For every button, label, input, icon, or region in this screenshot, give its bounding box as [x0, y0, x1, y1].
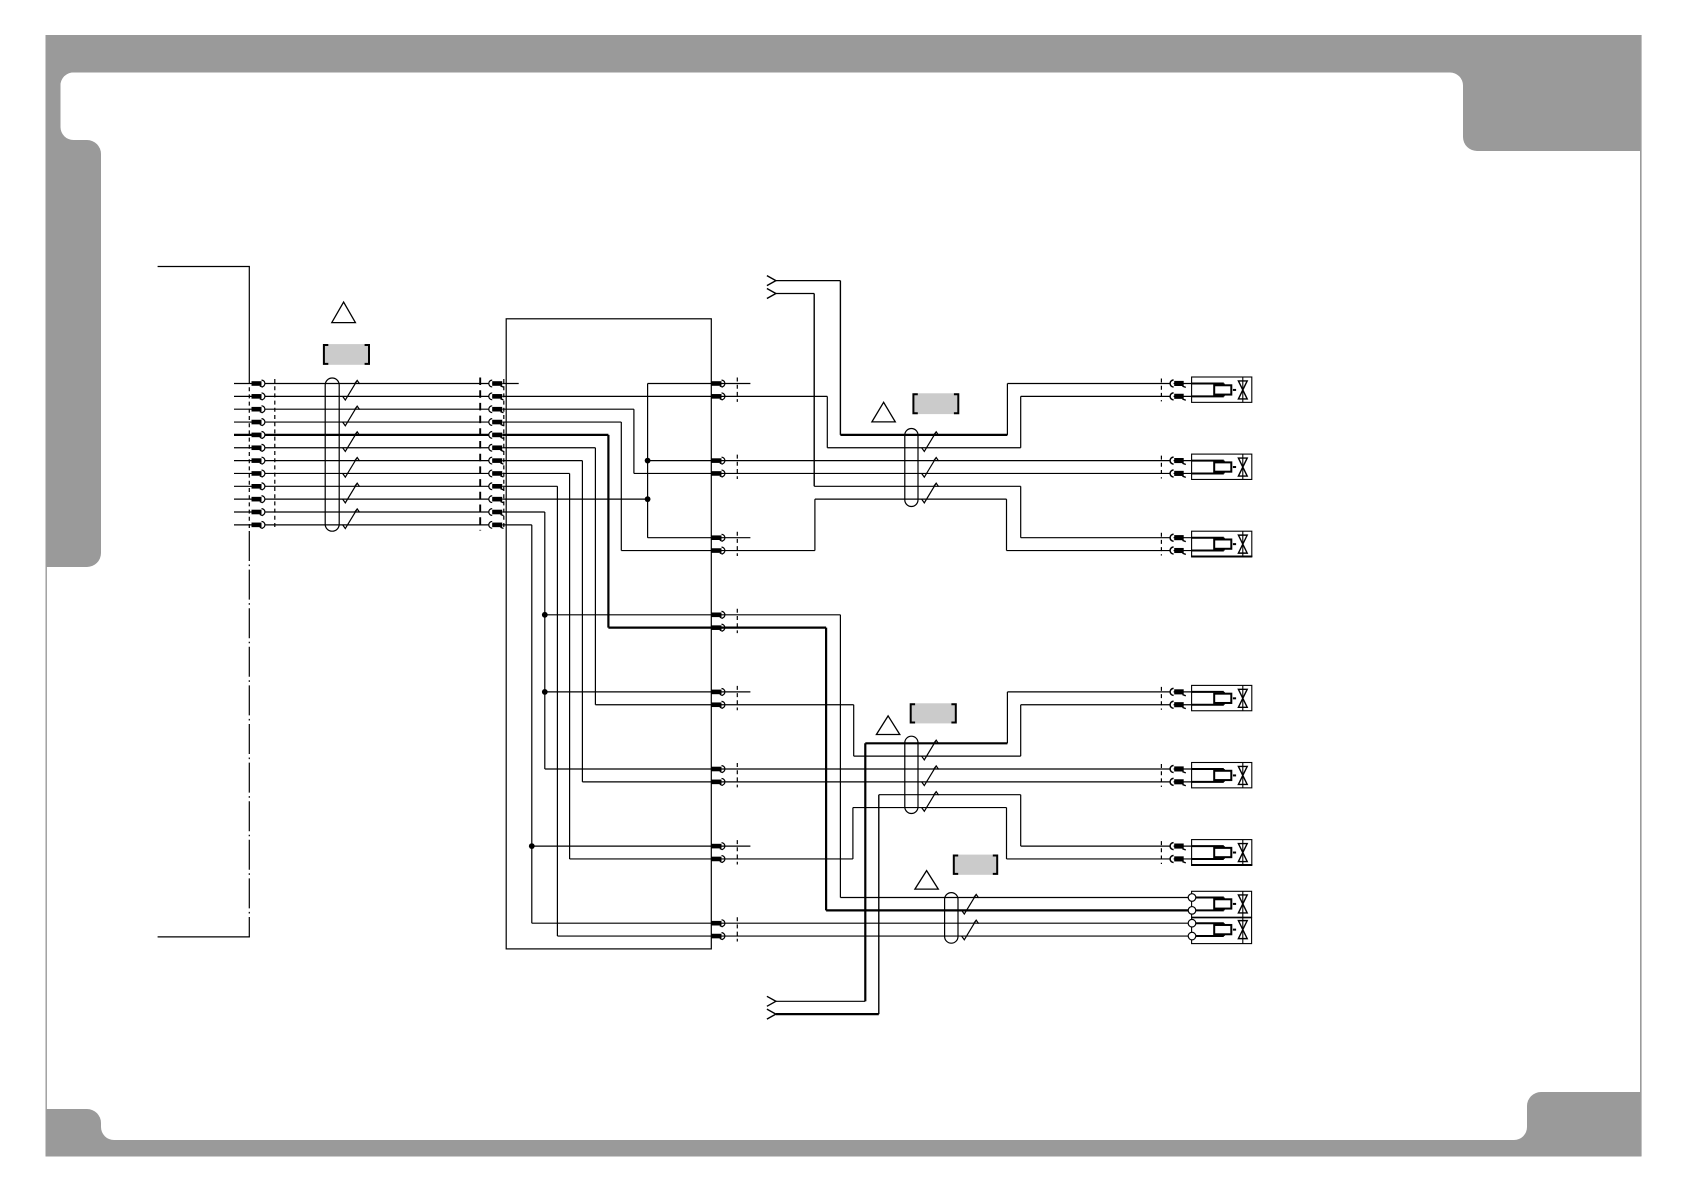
twisted-pair mark S4-1 — [962, 894, 979, 914]
connector CN1 pin 11 — [234, 509, 265, 516]
junction row11/pair5-top — [542, 689, 548, 695]
control block outline U1 — [506, 319, 711, 949]
connector CN1 pin 2 — [234, 393, 265, 400]
junction bus/pair2-top — [645, 458, 651, 464]
connector CN1 pin 7 — [234, 457, 265, 464]
wire net row7 riser to CN3 — [502, 461, 711, 782]
twisted-pair mark S2-3 — [922, 483, 939, 503]
label box 4 — [954, 855, 997, 875]
power arrow P4 — [767, 1009, 776, 1019]
wire net row2 (to CN3 pair1 bottom) — [502, 395, 711, 397]
connector CN2 mating dash — [503, 379, 505, 529]
wire V6-bottom from CN3 pair7 — [722, 808, 1192, 859]
wire V3-bottom from CN3 pair3 — [722, 499, 1192, 550]
connector CN1 pin 4 — [234, 419, 265, 426]
twisted-pair mark S1-5 — [343, 483, 360, 503]
label box 1 — [324, 344, 369, 365]
wire V7-top from CN3 pair4 — [722, 615, 1189, 898]
connector CN3 pair 7 pins — [712, 843, 725, 863]
solenoid valve V8 (dual block lower) — [1188, 918, 1251, 944]
wire harness row 12 — [265, 524, 492, 526]
wire harness row 5 — [265, 434, 492, 436]
connector CN3 pair 4 mating dash — [736, 609, 738, 633]
cable shield oval S1 — [325, 378, 339, 531]
wire V1-bottom feed from CN3 pair1 — [722, 396, 1192, 447]
wire P1 feed — [776, 281, 841, 435]
wire V6-top feed from P4 — [879, 795, 1192, 846]
wire V8-bottom from CN3 pair8 — [722, 935, 1189, 937]
cable shield oval S4 — [945, 893, 958, 944]
connector CN3 pair 5 mating dash — [736, 686, 738, 710]
twisted-pair mark S4-2 — [962, 920, 979, 940]
wire net row9 riser to CN3 — [502, 486, 711, 936]
connector CN2 pin 2 — [489, 393, 504, 400]
warning triangle 2 — [872, 402, 895, 422]
wire harness row 7 — [265, 460, 492, 462]
solenoid valve V2 — [1161, 454, 1251, 479]
wire harness row 10 — [265, 498, 492, 500]
connector CN2 pin 9 — [489, 483, 504, 490]
cable shield oval S3 — [905, 736, 918, 813]
connector CN3 pair 8 mating dash — [736, 917, 738, 941]
connector CN1 mating boundary dash — [274, 379, 276, 529]
wire net row10 to common bus — [502, 498, 647, 500]
connector CN1 pin 5 — [234, 432, 265, 439]
wire V8-top from CN3 pair8 — [722, 922, 1189, 924]
stub CN3 unconnected top pin — [722, 691, 751, 693]
label box 2 — [913, 393, 958, 414]
wire harness row 6 — [265, 447, 492, 449]
wire net row4 riser to CN3 — [502, 422, 711, 551]
twisted-pair mark S1-6 — [343, 509, 360, 529]
wire V2-bottom from CN3 pair2 — [722, 472, 1192, 474]
solenoid valve V5 — [1161, 763, 1251, 788]
connector CN1 pin 10 — [234, 496, 265, 503]
connector CN2 boundary dash (heavy) — [479, 378, 481, 531]
wire V1-top feed (thick AC line) — [840, 384, 1191, 435]
wire net row5 riser to CN3 — [502, 435, 711, 628]
twisted-pair mark S2-2 — [922, 458, 939, 478]
wire net row8 riser to CN3 — [502, 473, 711, 859]
connector CN3 pair 5 pins — [712, 689, 725, 709]
twisted-pair mark S3-3 — [922, 792, 939, 812]
wire net row3 riser to CN3 — [502, 409, 711, 473]
wire net row12 (pairs 7,8 top) — [502, 525, 711, 923]
twisted-pair mark S1-3 — [343, 432, 360, 452]
solenoid valve V1 — [1161, 377, 1251, 402]
connector CN3 pair 1 mating dash — [736, 378, 738, 402]
board outline CN1 (left device, chain-line boundary) — [158, 267, 250, 937]
power arrow P2 — [767, 289, 776, 299]
warning triangle 4 — [915, 871, 938, 890]
twisted-pair mark S1-4 — [343, 458, 360, 478]
twisted-pair mark S3-2 — [922, 766, 939, 786]
connector CN3 pair 2 pins — [712, 457, 725, 477]
wire harness row 2 — [265, 395, 492, 397]
connector CN2 pin 5 — [489, 432, 504, 439]
connector CN2 pin 8 — [489, 470, 504, 477]
power arrow P1 — [767, 276, 776, 286]
connector CN1 pin 3 — [234, 406, 265, 413]
connector CN3 pair 8 pins — [712, 920, 725, 940]
power arrow P3 — [767, 996, 776, 1006]
twisted-pair mark S3-1 — [922, 740, 939, 760]
warning triangle 1 — [332, 302, 356, 323]
label box 3 — [911, 703, 956, 723]
wire V2-top from CN3 pair2 — [722, 460, 1192, 462]
connector CN2 pin 7 — [489, 457, 504, 464]
connector CN3 pair 7 mating dash — [736, 840, 738, 864]
wire harness row 4 — [265, 421, 492, 423]
stub CN3 unconnected top pin — [722, 845, 751, 847]
wire V4-top feed (thick, from P3) — [865, 692, 1191, 743]
solenoid valve V6 — [1161, 840, 1252, 865]
connector CN3 pair 3 pins — [712, 534, 725, 554]
solenoid valve V7 (dual block upper) — [1188, 891, 1251, 917]
connector CN2 pin 6 — [489, 444, 504, 451]
connector CN3 pair 6 pins — [712, 766, 725, 786]
connector CN3 pair 2 mating dash — [736, 455, 738, 479]
connector CN3 pair 3 mating dash — [736, 532, 738, 556]
wire P3 feed — [776, 743, 865, 1001]
wire P4 feed — [776, 795, 879, 1014]
wire P2 feed — [776, 294, 814, 487]
junction bus/row10 — [645, 496, 651, 502]
stub CN3 unconnected top pin — [722, 537, 751, 539]
connector CN1 pin 8 — [234, 470, 265, 477]
twisted-pair mark S1-2 — [343, 406, 360, 426]
connector CN3 pair 1 pins — [712, 380, 725, 400]
connector CN2 pin 12 — [489, 521, 504, 528]
warning triangle 3 — [876, 716, 899, 735]
wire harness row 11 — [265, 511, 492, 513]
wire harness row 3 — [265, 408, 492, 410]
connector CN1 pin 6 — [234, 444, 265, 451]
wire V5-bottom from CN3 pair6 — [722, 781, 1192, 783]
connector CN1 pin 9 — [234, 483, 265, 490]
connector CN1 pin 1 — [234, 380, 265, 387]
wire harness row 8 — [265, 472, 492, 474]
connector CN3 pair 6 mating dash — [736, 763, 738, 787]
connector CN2 pin 3 — [489, 406, 504, 413]
junction row12/pair7-top — [529, 843, 535, 849]
connector CN3 pair 4 pins — [712, 611, 725, 631]
wire net row11 (pairs 4,5,6 top) — [502, 512, 711, 769]
solenoid valve V4 — [1161, 685, 1251, 710]
wire V5-top from CN3 pair6 — [722, 768, 1192, 770]
connector CN1 pin 12 — [234, 521, 265, 528]
wire net row1 stub inside U1 — [502, 383, 518, 385]
common bus (pairs 1,2,3 top) — [648, 384, 712, 538]
wire harness row 9 — [265, 485, 492, 487]
connector CN2 pin 1 — [489, 380, 504, 387]
connector CN2 pin 11 — [489, 509, 504, 516]
twisted-pair mark S1-1 — [343, 380, 360, 400]
wire harness row 1 — [265, 383, 492, 385]
cable shield oval S2 — [905, 429, 918, 507]
stub CN3 unconnected top pin — [722, 383, 751, 385]
wire V4-bottom from CN3 pair5 — [722, 705, 1192, 756]
solenoid valve V3 — [1161, 531, 1252, 556]
wire V7-bottom thick from CN3 pair4 — [722, 628, 1189, 911]
twisted-pair mark S2-1 — [922, 432, 939, 452]
wire net row6 riser to CN3 — [502, 448, 711, 705]
wire V3-top feed from P2 — [814, 486, 1191, 537]
junction row11/pair4-top — [542, 612, 548, 618]
connector CN2 pin 4 — [489, 419, 504, 426]
connector CN2 pin 10 — [489, 496, 504, 503]
